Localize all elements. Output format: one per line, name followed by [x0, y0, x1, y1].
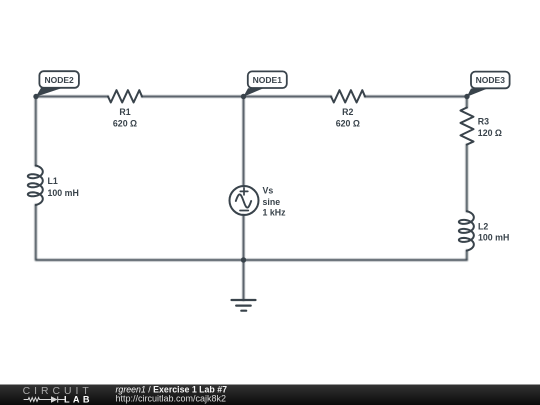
- svg-text:L1: L1: [48, 176, 58, 186]
- svg-text:620 Ω: 620 Ω: [113, 119, 137, 129]
- svg-text:100 mH: 100 mH: [478, 233, 509, 243]
- svg-text:R2: R2: [342, 107, 353, 117]
- svg-text:NODE1: NODE1: [253, 75, 283, 85]
- svg-text:Vs: Vs: [263, 186, 274, 196]
- svg-text:NODE3: NODE3: [476, 75, 506, 85]
- svg-text:1 kHz: 1 kHz: [263, 208, 287, 218]
- svg-text:http://circuitlab.com/cajk8k2: http://circuitlab.com/cajk8k2: [116, 393, 227, 403]
- svg-text:NODE2: NODE2: [44, 75, 74, 85]
- svg-text:120 Ω: 120 Ω: [478, 128, 502, 138]
- svg-text:R3: R3: [478, 117, 489, 127]
- svg-text:LAB: LAB: [64, 395, 93, 405]
- svg-text:R1: R1: [119, 107, 130, 117]
- svg-text:sine: sine: [263, 197, 281, 207]
- svg-text:100 mH: 100 mH: [48, 188, 79, 198]
- svg-text:620 Ω: 620 Ω: [336, 119, 360, 129]
- svg-text:L2: L2: [478, 222, 488, 232]
